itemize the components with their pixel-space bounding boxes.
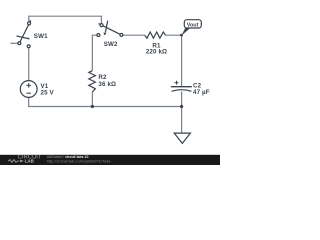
svg-text:LAB: LAB [25, 159, 35, 164]
switch SW2 [97, 21, 123, 37]
wire bottom rail right [92, 106, 181, 108]
node junction dot C2 / bottom rail [180, 105, 183, 108]
wire SW1 left stub [11, 42, 19, 44]
wire SW2 pole to R1 [123, 34, 145, 36]
svg-text:SW1: SW1 [34, 33, 48, 40]
wire SW1 to V1 [28, 48, 30, 81]
svg-text:47 µF: 47 µF [193, 89, 210, 96]
svg-text:AltGhates / circuit labs 10: AltGhates / circuit labs 10 [47, 155, 89, 159]
footer logo triangle [20, 160, 23, 163]
voltage source V1 [20, 81, 37, 98]
resistor R1 [145, 32, 166, 38]
resistor R2 [89, 71, 96, 92]
footer logo zigzag [8, 160, 19, 163]
wire V1 to bottom rail [29, 97, 92, 106]
wire top rail SW1 to SW2 [29, 16, 102, 23]
footer bar [0, 155, 220, 165]
node Vout flag [181, 28, 190, 36]
svg-text:http://circuitlab.com/cjkb637S: http://circuitlab.com/cjkb637SrTsda [47, 160, 111, 164]
svg-text:25 V: 25 V [41, 89, 55, 96]
wire SW2 throw stub down to R2 [92, 35, 97, 70]
capacitor C2 [171, 86, 192, 88]
node junction dot at Vout corner [180, 34, 183, 37]
switch SW1 [17, 20, 31, 47]
node junction dot R2 / bottom rail [91, 105, 94, 108]
wire R1 to Vout corner down to C2 [166, 35, 182, 86]
svg-text:SW2: SW2 [104, 41, 118, 48]
wire C2 to ground [181, 92, 183, 134]
svg-text:220 kΩ: 220 kΩ [146, 49, 167, 56]
svg-text:Vout: Vout [187, 23, 199, 29]
ground [174, 133, 190, 143]
svg-text:36 kΩ: 36 kΩ [98, 81, 116, 88]
wire R2 to bottom rail [91, 92, 93, 107]
